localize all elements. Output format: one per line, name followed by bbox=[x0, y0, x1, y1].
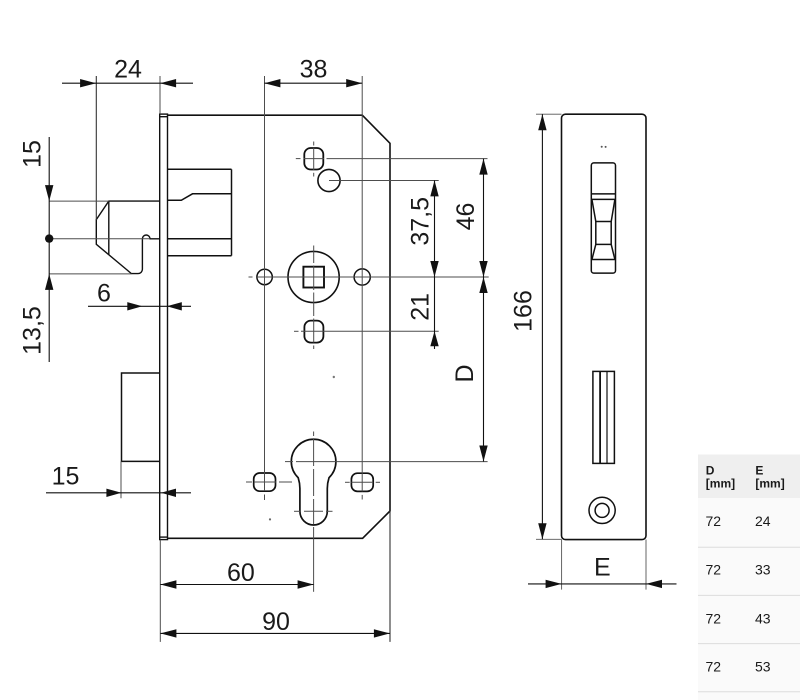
cylinder bottom cap cross bbox=[294, 510, 301, 512]
ext faceplate left below bbox=[159, 540, 161, 642]
latch bolt head bbox=[96, 201, 160, 274]
svg-text:72: 72 bbox=[706, 659, 722, 675]
dimension 21 bbox=[407, 277, 439, 349]
small circle below top hole bbox=[318, 169, 340, 191]
svg-text:24: 24 bbox=[755, 513, 771, 529]
ext line x96 bbox=[95, 76, 97, 220]
svg-text:72: 72 bbox=[706, 611, 722, 627]
lower oval hole bbox=[304, 321, 323, 343]
bottom left screw hole bbox=[254, 473, 276, 491]
svg-text:15: 15 bbox=[52, 463, 80, 491]
dimension 166 bbox=[510, 114, 562, 539]
ext line x362 bbox=[361, 76, 363, 471]
ext latch axis to left dot bbox=[53, 238, 150, 240]
lock case outline bbox=[168, 115, 391, 538]
ext latch top to left dim bbox=[49, 200, 109, 202]
ext line x160 top bbox=[159, 76, 161, 114]
dimension 90 bbox=[160, 608, 390, 638]
svg-text:90: 90 bbox=[262, 608, 290, 636]
faceplate front view bbox=[160, 114, 168, 539]
top hole cross bbox=[313, 142, 315, 146]
ext deadbolt below bbox=[120, 461, 122, 498]
ext lower hole to 21 dim bbox=[294, 330, 299, 332]
data table bbox=[698, 455, 800, 700]
case right edge extension line bbox=[389, 511, 391, 642]
center line y277 bbox=[249, 276, 253, 278]
svg-text:[mm]: [mm] bbox=[706, 476, 735, 490]
cylinder center cross bbox=[285, 461, 293, 463]
latch body box bbox=[168, 169, 232, 255]
svg-text:24: 24 bbox=[114, 56, 142, 84]
ext circle to 37,5 dim bbox=[329, 180, 439, 182]
ext latch bottom to left dim bbox=[49, 273, 131, 275]
follower center vertical dashes bbox=[313, 246, 315, 264]
dimension 13,5 bbox=[19, 274, 54, 355]
svg-text:53: 53 bbox=[755, 659, 771, 675]
stray dot b bbox=[269, 518, 271, 520]
svg-text:6: 6 bbox=[97, 280, 111, 308]
bottom left hole cross bbox=[246, 481, 252, 483]
euro cylinder hole bbox=[291, 439, 336, 525]
ext line x264 bbox=[264, 76, 266, 473]
svg-text:72: 72 bbox=[706, 562, 722, 578]
side view screw hole bbox=[589, 497, 615, 523]
svg-text:43: 43 bbox=[755, 611, 771, 627]
thin extension and center lines bbox=[49, 76, 489, 642]
top screw hole bbox=[304, 148, 323, 170]
ext cylinder axis below case bbox=[313, 538, 315, 592]
svg-text:33: 33 bbox=[755, 562, 771, 578]
reference dot bbox=[45, 234, 53, 242]
stray dot a bbox=[333, 376, 335, 378]
side view latch cutout bbox=[591, 163, 615, 273]
svg-text:38: 38 bbox=[300, 56, 328, 84]
follower circle bbox=[288, 251, 339, 302]
ext top hole to 46 dim bbox=[327, 158, 488, 160]
follower square bbox=[303, 267, 324, 288]
dimension 24 bbox=[62, 56, 193, 88]
svg-text:[mm]: [mm] bbox=[755, 476, 784, 490]
side view deadbolt slot bbox=[593, 371, 615, 463]
dimension 38 bbox=[264, 56, 362, 88]
bottom right screw hole bbox=[351, 473, 373, 491]
svg-text:D: D bbox=[451, 364, 479, 382]
left small circle bbox=[257, 269, 272, 284]
svg-text:166: 166 bbox=[510, 290, 538, 332]
bottom right hole cross bbox=[345, 481, 350, 483]
svg-text:37,5: 37,5 bbox=[407, 197, 435, 246]
dimension 6 bbox=[88, 280, 191, 311]
svg-text:13,5: 13,5 bbox=[19, 306, 47, 355]
dimension 15 upper left bbox=[19, 137, 54, 362]
svg-text:21: 21 bbox=[407, 293, 435, 321]
svg-text:46: 46 bbox=[452, 203, 480, 231]
dimension 15 lower left bbox=[46, 463, 191, 497]
deadbolt front view bbox=[122, 373, 161, 461]
side view plate bbox=[562, 114, 647, 539]
dimension D bbox=[451, 277, 488, 462]
svg-text:E: E bbox=[594, 554, 611, 582]
svg-text:72: 72 bbox=[706, 513, 722, 529]
svg-text:15: 15 bbox=[19, 140, 47, 168]
dimension 60 bbox=[160, 559, 313, 589]
side view dots bbox=[601, 146, 603, 148]
cylinder vertical dashes bbox=[313, 432, 315, 437]
right small circle bbox=[354, 269, 370, 285]
svg-text:60: 60 bbox=[227, 559, 255, 587]
dimension 37,5 bbox=[407, 180, 439, 277]
dimension E bbox=[528, 540, 677, 590]
dimension 46 bbox=[452, 159, 488, 277]
